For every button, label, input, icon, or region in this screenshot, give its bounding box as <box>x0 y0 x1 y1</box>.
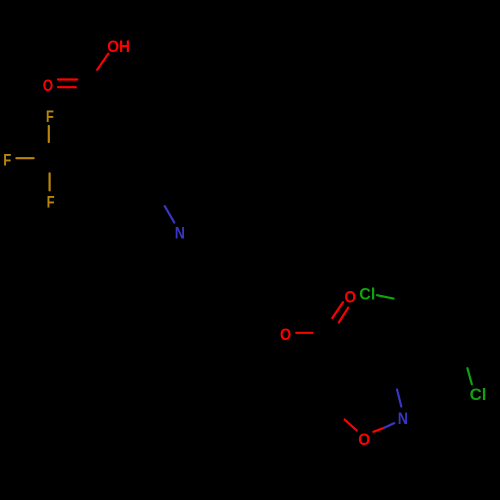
svg-text:N: N <box>175 223 185 242</box>
svg-text:Cl: Cl <box>470 385 487 404</box>
svg-text:O: O <box>358 430 370 449</box>
svg-text:O: O <box>280 325 291 344</box>
svg-text:F: F <box>47 193 55 212</box>
svg-text:O: O <box>43 76 53 95</box>
svg-text:F: F <box>46 107 54 126</box>
svg-text:N: N <box>398 409 408 428</box>
svg-text:Cl: Cl <box>359 285 375 304</box>
svg-text:O: O <box>345 288 357 307</box>
svg-text:F: F <box>3 151 11 170</box>
svg-text:OH: OH <box>107 37 130 56</box>
